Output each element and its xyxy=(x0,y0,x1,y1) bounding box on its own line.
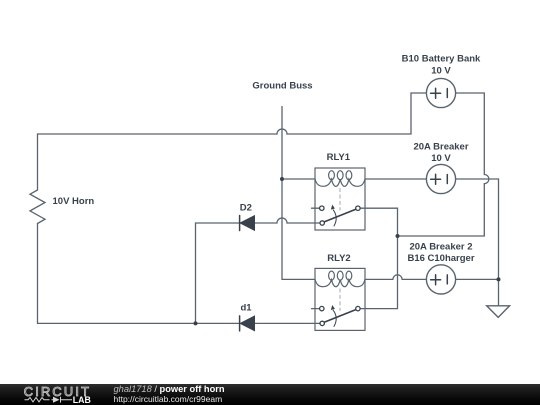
resistor R1 10V Horn xyxy=(30,190,45,224)
wire RLY1 switch out to mid junction xyxy=(360,208,398,236)
source 20A breaker 2 xyxy=(426,265,455,294)
footer bar xyxy=(0,384,540,405)
svg-text:RLY2: RLY2 xyxy=(327,253,350,264)
svg-text:d1: d1 xyxy=(240,303,252,314)
wire RLY1 coil right to breaker xyxy=(365,178,426,180)
junction dot mid right xyxy=(396,234,400,238)
svg-text:10 V: 10 V xyxy=(431,153,451,164)
relay RLY2 xyxy=(312,268,366,330)
wire RLY2 coil right to breaker2 (hops rail) xyxy=(365,275,426,280)
svg-text:RLY1: RLY1 xyxy=(327,152,351,163)
wire ground buss to RLY1 coil xyxy=(282,178,315,180)
svg-text:Ground Buss: Ground Buss xyxy=(252,81,312,92)
circuitlab logo xyxy=(0,384,100,405)
svg-text:10V Horn: 10V Horn xyxy=(53,196,95,207)
diode d1 xyxy=(240,316,255,331)
junction dot ground buss / RLY1 coil xyxy=(280,177,284,181)
wire horn bottom to bottom rail xyxy=(38,224,321,324)
junction dot right rail xyxy=(497,277,501,281)
junction dot bottom left xyxy=(194,321,198,325)
wire top net: horn top to battery + xyxy=(38,93,427,134)
wire D2 branch: junction up, to RLY1 switch common xyxy=(196,218,321,323)
wire mid junction down to RLY2 switch out xyxy=(360,236,398,309)
svg-text:B16 C10harger: B16 C10harger xyxy=(407,253,474,264)
svg-text:10 V: 10 V xyxy=(431,66,451,77)
svg-text:B10 Battery Bank: B10 Battery Bank xyxy=(402,54,481,65)
svg-text:20A Breaker 2: 20A Breaker 2 xyxy=(409,242,472,253)
svg-text:D2: D2 xyxy=(240,203,252,214)
source B10 battery bank xyxy=(426,78,455,107)
wire breaker2 right to right rail xyxy=(456,278,499,280)
wire left vertical to horn xyxy=(37,134,39,190)
wire ground buss vertical xyxy=(282,107,315,280)
svg-text:20A Breaker: 20A Breaker xyxy=(413,142,468,153)
ground symbol xyxy=(487,306,510,318)
wire breaker right to right rail xyxy=(456,179,499,306)
svg-text:LAB: LAB xyxy=(73,395,91,405)
source 20A breaker xyxy=(426,164,455,193)
wire battery right, riser down to mid junction xyxy=(398,93,489,236)
diode D2 xyxy=(240,216,255,231)
relay RLY1 xyxy=(312,168,366,230)
